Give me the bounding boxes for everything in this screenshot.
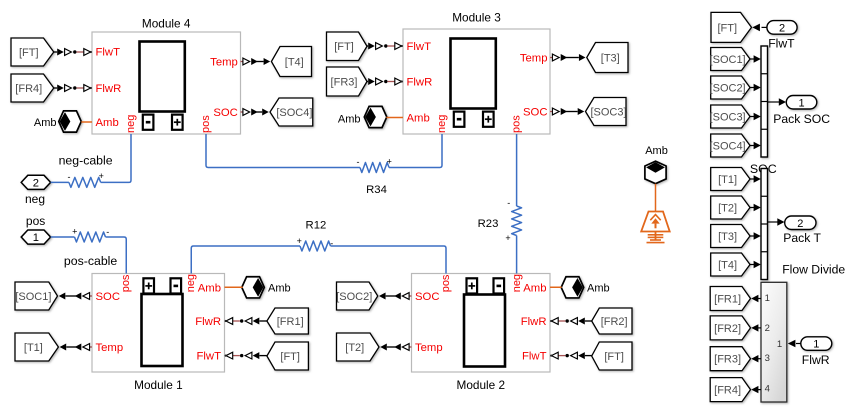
svg-text:Temp: Temp <box>415 342 443 354</box>
from tag [FT] feeding Module 1 FlwT <box>267 342 309 370</box>
svg-text:Temp: Temp <box>210 57 238 69</box>
goto tag [SOC1] <box>15 282 58 310</box>
battery icon Module 2 (flipped) <box>464 295 505 367</box>
goto tag [FR2] from demux <box>710 316 750 340</box>
signal chain Temp to [T4] <box>241 61 244 63</box>
wire R12 to Module 2 pos pin <box>331 246 447 274</box>
svg-text:SOC: SOC <box>96 291 120 303</box>
svg-text:Amb: Amb <box>338 113 361 125</box>
svg-text:pos: pos <box>200 115 212 133</box>
svg-text:-: - <box>68 172 71 182</box>
svg-text:[SOC4]: [SOC4] <box>710 140 746 152</box>
svg-text:neg: neg <box>125 115 137 133</box>
svg-text:[FT]: [FT] <box>717 22 737 34</box>
thermal wire Amb to thermal reference <box>655 184 657 212</box>
hexagon port 2 neg <box>21 175 50 189</box>
svg-text:[T2]: [T2] <box>345 342 364 354</box>
svg-text:+: + <box>387 156 392 166</box>
svg-text:2: 2 <box>765 323 770 334</box>
svg-text:1: 1 <box>813 339 819 351</box>
svg-text:Pack SOC: Pack SOC <box>773 112 830 126</box>
svg-text:[T1]: [T1] <box>24 342 43 354</box>
from tag [FR2] feeding Module 2 FlwR <box>592 308 632 334</box>
signal chain SOC to [SOC2] <box>409 295 412 297</box>
svg-text:SOC: SOC <box>213 107 237 119</box>
svg-text:Flow Divide: Flow Divide <box>782 263 845 277</box>
svg-text:[FT]: [FT] <box>604 351 624 363</box>
wire R23 from Module 3 pos pin <box>516 134 518 206</box>
svg-text:FlwR: FlwR <box>407 77 433 89</box>
inport oval 2 FlwT <box>767 21 797 35</box>
goto tag [T4] <box>271 47 311 77</box>
svg-text:+: + <box>72 226 77 236</box>
svg-text:neg: neg <box>185 274 197 292</box>
signal chain SOC to [SOC1] <box>89 295 92 297</box>
svg-text:pos-cable: pos-cable <box>64 254 117 268</box>
svg-text:FlwT: FlwT <box>522 351 547 363</box>
svg-text:Amb: Amb <box>34 117 57 129</box>
subsystem block Module 4 <box>92 32 241 134</box>
svg-text:+: + <box>505 233 510 243</box>
from tag [T2] to mux <box>711 196 750 219</box>
from tag [T4] to mux <box>711 253 750 276</box>
resistor R23 <box>512 206 522 236</box>
mux Pack T <box>761 169 768 280</box>
signal chain [FT] to FlwT port <box>54 51 57 53</box>
svg-text:1: 1 <box>765 293 770 304</box>
mux SOC <box>761 46 768 157</box>
wire pos-cable to Module 1 pos pin <box>106 237 127 274</box>
svg-text:SOC: SOC <box>523 107 547 119</box>
from tag [FT] feeding Module 4 FlwT <box>11 38 54 66</box>
svg-text:FlwR: FlwR <box>802 353 830 367</box>
svg-text:FlwR: FlwR <box>521 316 547 328</box>
svg-text:[T3]: [T3] <box>718 231 737 243</box>
svg-text:neg: neg <box>436 115 448 133</box>
svg-text:Pack T: Pack T <box>783 231 821 245</box>
svg-text:[T2]: [T2] <box>718 202 737 214</box>
from tag [FT] feeding Module 3 FlwT <box>327 32 368 61</box>
svg-text:FlwR: FlwR <box>96 83 122 95</box>
svg-text:[FR4]: [FR4] <box>714 385 741 397</box>
svg-text:[SOC3]: [SOC3] <box>590 106 626 118</box>
svg-text:R34: R34 <box>366 184 387 196</box>
signal chain [FT] to Module 1 FlwT <box>259 355 267 357</box>
svg-text:FlwT: FlwT <box>768 36 795 50</box>
thermal wire Amb to Module 4 <box>81 121 92 123</box>
wire pos-cable left segment <box>51 236 75 238</box>
svg-text:FlwR: FlwR <box>195 316 221 328</box>
svg-text:Amb: Amb <box>268 282 291 294</box>
signal chain Temp to [T1] <box>89 346 92 348</box>
resistor R12 <box>300 241 331 251</box>
signal chain SOC to [SOC3] <box>550 111 553 113</box>
thermal wire Amb to Module 2 <box>550 286 562 288</box>
svg-text:[FR1]: [FR1] <box>714 293 741 305</box>
Amb source block (Module 4) <box>59 111 82 132</box>
svg-text:[SOC2]: [SOC2] <box>710 82 746 94</box>
svg-text:R23: R23 <box>478 218 499 230</box>
thermal wire Amb to Module 1 <box>225 286 243 288</box>
svg-text:Module 3: Module 3 <box>452 11 501 25</box>
thermal wire Amb to Module 3 <box>386 117 403 119</box>
svg-text:2: 2 <box>33 177 39 189</box>
svg-text:[FR2]: [FR2] <box>714 323 741 335</box>
svg-text:R12: R12 <box>306 220 327 232</box>
resistor pos-cable <box>75 232 106 242</box>
Amb source block (Module 1) <box>242 277 264 298</box>
signal chain [FR2] to Module 2 FlwR <box>585 320 592 322</box>
svg-text:[SOC3]: [SOC3] <box>710 111 746 123</box>
wire inport 1 to demux <box>796 343 801 345</box>
goto tag [FR1] from demux <box>710 287 750 311</box>
svg-text:+: + <box>297 236 302 246</box>
svg-text:Amb: Amb <box>96 117 119 129</box>
wire inport 2 to [FT] tag <box>762 26 767 28</box>
goto tag [FR4] from demux <box>710 378 750 402</box>
battery icon Module 3 <box>451 39 496 109</box>
signal chain Temp to [T3] <box>550 57 553 59</box>
svg-text:[SOC1]: [SOC1] <box>710 54 746 66</box>
svg-text:1: 1 <box>33 232 39 244</box>
svg-text:pos: pos <box>440 274 452 292</box>
svg-text:[T1]: [T1] <box>718 174 737 186</box>
svg-text:FlwT: FlwT <box>407 41 432 53</box>
outport oval 2 Pack T <box>785 216 816 230</box>
svg-text:Temp: Temp <box>520 53 548 65</box>
from tag [FR3] feeding Module 3 FlwR <box>327 67 368 96</box>
svg-text:Amb: Amb <box>523 282 546 294</box>
signal chain [FR3] to Module 3 FlwR <box>367 81 368 83</box>
svg-text:[FR4]: [FR4] <box>15 83 42 95</box>
svg-text:Amb: Amb <box>587 282 610 294</box>
svg-text:-: - <box>507 198 510 208</box>
thermal reference (orange ground) <box>641 212 670 243</box>
wire neg-cable to Module 4 neg pin <box>101 134 131 182</box>
svg-text:[SOC1]: [SOC1] <box>15 291 51 303</box>
svg-text:Module 1: Module 1 <box>134 378 183 392</box>
from tag [FT] feeding Module 2 FlwT <box>592 342 632 370</box>
goto tag [SOC2] <box>336 282 378 310</box>
svg-text:[SOC4]: [SOC4] <box>276 107 312 119</box>
svg-text:-: - <box>106 227 109 237</box>
svg-text:neg: neg <box>25 192 45 206</box>
subsystem block Module 1 <box>92 274 225 373</box>
svg-text:pos: pos <box>120 274 132 292</box>
svg-text:Module 4: Module 4 <box>142 16 191 30</box>
svg-text:Temp: Temp <box>96 342 124 354</box>
svg-text:FlwT: FlwT <box>197 351 222 363</box>
from tag [T1] to mux <box>711 168 750 191</box>
from tag [SOC3] to mux <box>710 105 750 128</box>
goto tag [T1] <box>15 333 58 361</box>
signal chain [FR1] to Module 1 FlwR <box>259 320 267 322</box>
outport oval 1 Pack SOC <box>786 96 817 110</box>
svg-text:Module 2: Module 2 <box>457 378 506 392</box>
goto tag [SOC4] <box>270 98 313 126</box>
from tag [T3] to mux <box>711 225 750 248</box>
signal chain Temp to [T2] <box>409 346 412 348</box>
wire R34 to Module 3 neg pin <box>389 134 442 168</box>
svg-text:SOC: SOC <box>415 291 439 303</box>
hexagon port 1 pos <box>21 230 50 244</box>
from tag [FR1] feeding Module 1 FlwR <box>267 308 309 334</box>
svg-text:neg-cable: neg-cable <box>59 153 113 167</box>
svg-text:[FR3]: [FR3] <box>714 354 741 366</box>
svg-text:[SOC2]: [SOC2] <box>336 291 372 303</box>
svg-text:pos: pos <box>26 214 45 228</box>
Amb source block (Module 3) <box>364 106 387 127</box>
goto tag [T2] <box>337 333 380 361</box>
subsystem block Module 2 <box>412 274 551 373</box>
svg-text:[T3]: [T3] <box>601 52 620 64</box>
goto tag [SOC3] <box>586 98 627 126</box>
goto tag [FR3] from demux <box>710 347 750 371</box>
battery icon Module 1 (flipped) <box>142 294 183 366</box>
battery icon Module 4 <box>140 42 185 112</box>
goto tag [FT] receiving FlwT inport <box>711 12 752 42</box>
svg-text:Amb: Amb <box>645 145 668 157</box>
svg-text:[FR1]: [FR1] <box>277 316 304 328</box>
svg-text:[FR2]: [FR2] <box>601 316 628 328</box>
svg-text:2: 2 <box>779 22 785 34</box>
from tag [SOC4] to mux <box>710 134 750 157</box>
svg-text:[T4]: [T4] <box>285 56 304 68</box>
svg-text:pos: pos <box>511 115 523 133</box>
svg-text:neg: neg <box>511 274 523 292</box>
signal chain SOC to [SOC4] <box>241 111 244 113</box>
wire R34 from Module 4 pos pin <box>206 134 360 168</box>
svg-text:FlwT: FlwT <box>96 47 121 59</box>
svg-text:4: 4 <box>765 383 770 394</box>
svg-text:-: - <box>357 157 360 167</box>
svg-text:1: 1 <box>777 339 782 350</box>
svg-text:[FR3]: [FR3] <box>331 76 358 88</box>
from tag [SOC1] to mux <box>710 48 750 71</box>
Amb source block (Module 2) <box>561 277 584 298</box>
signal chain [FT] to Module 2 FlwT <box>585 355 592 357</box>
subsystem block Module 3 <box>403 29 550 134</box>
from tag [FR4] feeding Module 4 FlwR <box>11 74 54 102</box>
resistor neg-cable <box>69 177 101 187</box>
svg-text:[T4]: [T4] <box>718 259 737 271</box>
wire neg-cable left segment <box>51 181 69 183</box>
svg-text:3: 3 <box>765 353 770 364</box>
wire R23 to Module 2 neg pin <box>516 236 518 274</box>
svg-text:[FT]: [FT] <box>280 351 300 363</box>
resistor R34 <box>360 163 389 173</box>
svg-text:[FT]: [FT] <box>19 47 39 59</box>
svg-text:[FT]: [FT] <box>334 41 354 53</box>
svg-text:Amb: Amb <box>407 112 430 124</box>
inport oval 1 FlwR <box>801 337 832 351</box>
wire mux Pack T to outport 2 <box>768 221 779 223</box>
svg-text:2: 2 <box>797 218 803 230</box>
wire mux SOC to outport 1 <box>768 101 781 103</box>
signal chain [FT] to Module 3 FlwT <box>367 45 368 47</box>
svg-text:-: - <box>330 238 333 248</box>
Amb source block (pack) <box>645 161 666 184</box>
from tag [SOC2] to mux <box>710 76 750 99</box>
svg-text:Amb: Amb <box>198 282 221 294</box>
svg-text:1: 1 <box>798 97 804 109</box>
wire R12 from Module 1 neg pin <box>191 246 300 274</box>
demux Flow Divide <box>761 282 787 402</box>
goto tag [T3] <box>587 43 628 73</box>
signal chain [FR4] to FlwR port <box>54 87 57 89</box>
svg-text:+: + <box>99 171 104 181</box>
